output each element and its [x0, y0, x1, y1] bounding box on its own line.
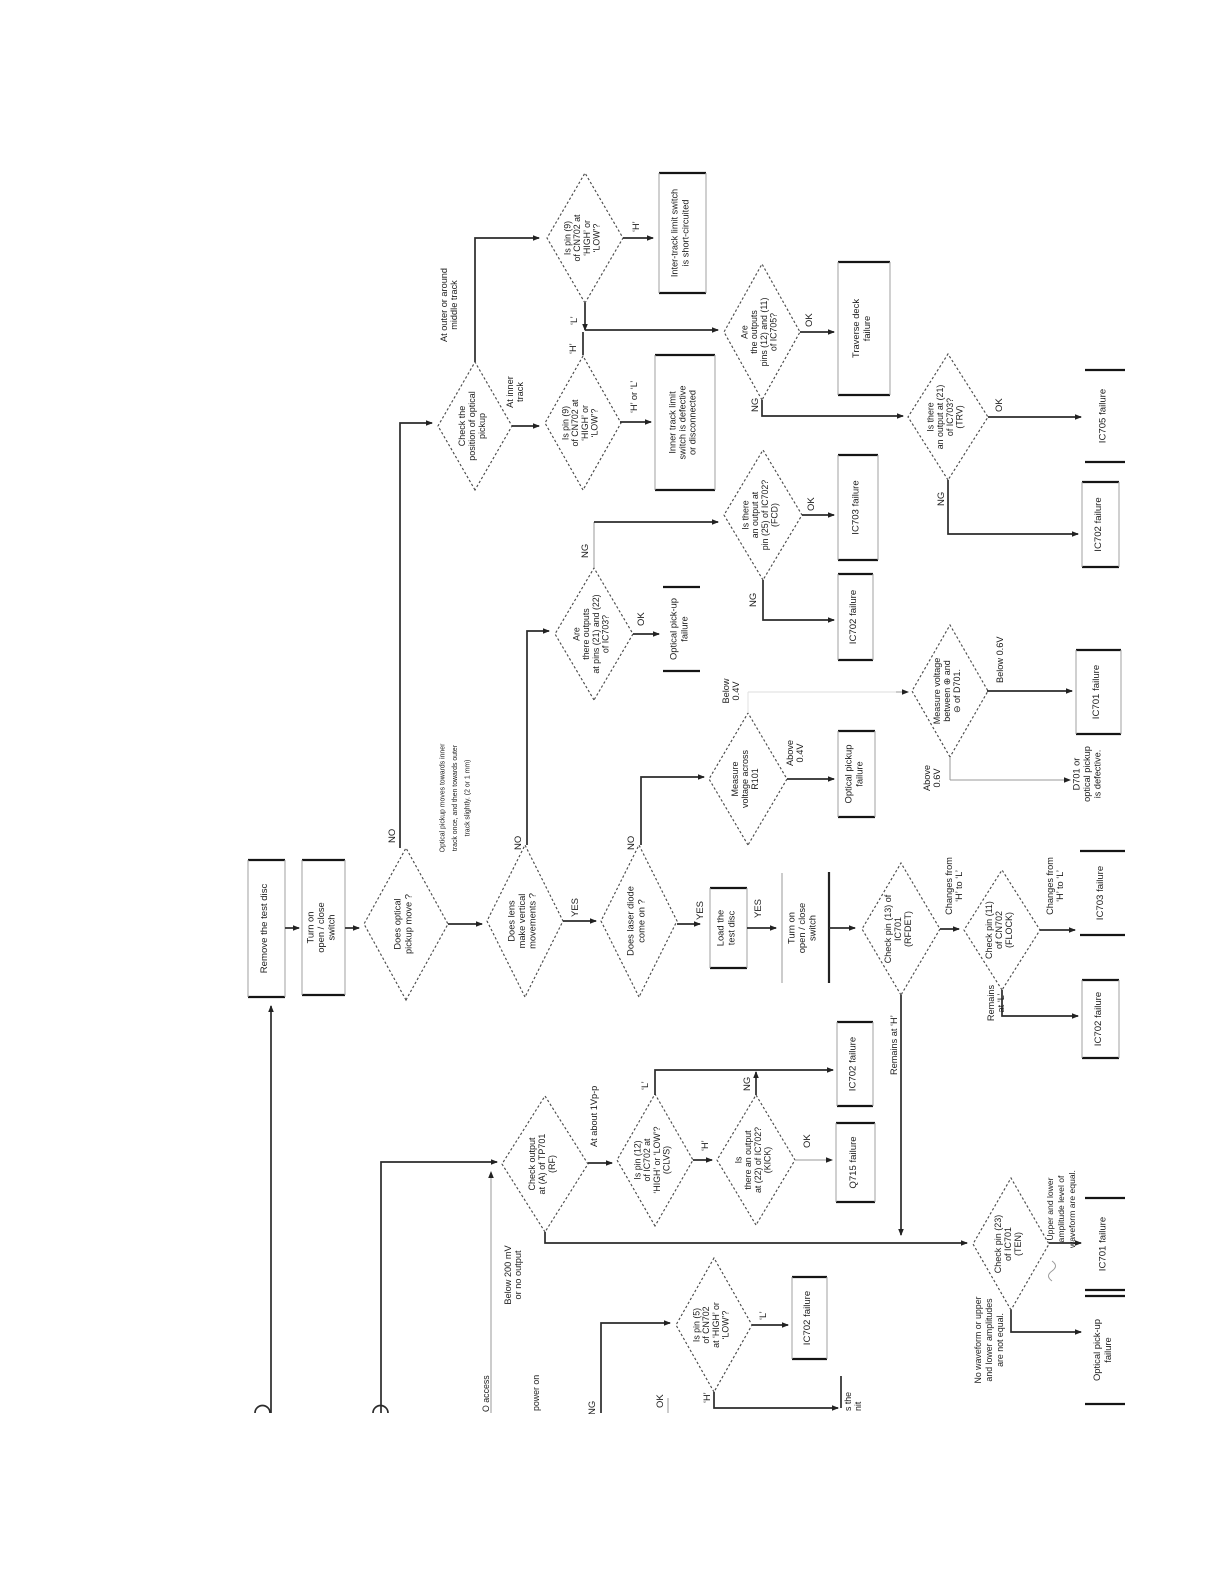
svg-text:Turn onopen / closeswitch: Turn onopen / closeswitch: [786, 903, 818, 954]
svg-text:OK: OK: [804, 313, 815, 327]
svg-text:Inner track limitswitch is def: Inner track limitswitch is defectiveor d…: [667, 385, 697, 459]
svg-text:‘L’: ‘L’: [758, 1311, 768, 1320]
svg-text:nit: nit: [853, 1401, 863, 1411]
svg-text:IC705 failure: IC705 failure: [1098, 389, 1109, 443]
svg-text:NO: NO: [387, 829, 398, 843]
svg-text:‘H’ or ‘L’: ‘H’ or ‘L’: [629, 381, 639, 413]
svg-text:IC703 failure: IC703 failure: [851, 480, 862, 534]
svg-text:At innertrack: At innertrack: [505, 376, 525, 408]
svg-text:Does lensmake verticalmovement: Does lensmake verticalmovements ?: [506, 893, 537, 949]
svg-text:IC702 failure: IC702 failure: [1093, 992, 1104, 1046]
svg-text:IC703 failure: IC703 failure: [1095, 866, 1106, 920]
svg-text:IC702 failure: IC702 failure: [1093, 497, 1104, 551]
svg-text:power on: power on: [531, 1375, 541, 1411]
svg-text:‘L’: ‘L’: [569, 316, 579, 325]
svg-text:Above0.6V: Above0.6V: [922, 765, 942, 791]
svg-text:IC702 failure: IC702 failure: [802, 1291, 813, 1345]
svg-text:IC701 failure: IC701 failure: [1098, 1217, 1109, 1271]
svg-text:IC702 failure: IC702 failure: [848, 1037, 859, 1091]
svg-text:Changes from‘H’ to ‘L’: Changes from‘H’ to ‘L’: [1045, 857, 1065, 915]
svg-text:Below0.4V: Below0.4V: [721, 678, 741, 703]
svg-text:Does opticalpickup move ?: Does opticalpickup move ?: [393, 894, 414, 954]
svg-text:OK: OK: [994, 398, 1005, 412]
svg-text:Load thetest disc: Load thetest disc: [715, 910, 737, 947]
svg-text:Below 0.6V: Below 0.6V: [995, 636, 1005, 683]
svg-text:Above0.4V: Above0.4V: [785, 740, 805, 766]
svg-text:‘H’: ‘H’: [631, 221, 641, 232]
svg-text:D701 oroptical pickupis defect: D701 oroptical pickupis defective.: [1072, 746, 1103, 802]
svg-text:Changes from‘H’ to ‘L’: Changes from‘H’ to ‘L’: [944, 857, 964, 915]
svg-text:OK: OK: [806, 497, 817, 511]
svg-text:‘H’: ‘H’: [568, 343, 578, 354]
svg-text:At outer or aroundmiddle track: At outer or aroundmiddle track: [439, 268, 459, 342]
svg-text:Q715 failure: Q715 failure: [848, 1136, 859, 1188]
svg-text:NG: NG: [587, 1401, 598, 1415]
svg-text:Upper and loweramplitude level: Upper and loweramplitude level ofwavefor…: [1045, 1170, 1077, 1249]
svg-text:NO: NO: [626, 836, 637, 850]
svg-text:IC702 failure: IC702 failure: [848, 590, 859, 644]
svg-text:NG: NG: [936, 492, 947, 506]
svg-text:OK: OK: [802, 1134, 813, 1148]
svg-text:s the: s the: [843, 1392, 853, 1411]
svg-text:O access: O access: [481, 1375, 491, 1412]
svg-text:NO: NO: [513, 836, 524, 850]
svg-text:‘H’: ‘H’: [702, 1392, 712, 1403]
svg-text:YES: YES: [695, 901, 706, 920]
svg-text:OK: OK: [655, 1394, 666, 1408]
svg-text:At about 1Vp-p: At about 1Vp-p: [589, 1086, 599, 1147]
svg-text:No waveform or upperand lower: No waveform or upperand lower amplitudes…: [973, 1296, 1005, 1383]
svg-text:Remove the test disc: Remove the test disc: [259, 884, 270, 974]
svg-text:Remains at ‘H’: Remains at ‘H’: [889, 1015, 899, 1075]
svg-text:‘H’: ‘H’: [700, 1140, 710, 1151]
svg-text:Optical pickup moves towards i: Optical pickup moves towards innertrack …: [440, 743, 472, 852]
svg-text:YES: YES: [753, 899, 764, 918]
svg-text:IC701 failure: IC701 failure: [1091, 665, 1102, 719]
svg-text:Inter-track limit switchis sho: Inter-track limit switchis short-circuit…: [670, 189, 691, 277]
svg-text:NG: NG: [580, 544, 591, 558]
svg-text:OK: OK: [636, 612, 647, 626]
svg-text:NG: NG: [748, 593, 759, 607]
svg-text:YES: YES: [570, 898, 581, 917]
svg-text:Below 200 mVor no output: Below 200 mVor no output: [503, 1245, 523, 1305]
svg-text:‘L’: ‘L’: [640, 1081, 650, 1090]
svg-text:NG: NG: [750, 398, 761, 412]
svg-text:NG: NG: [742, 1077, 753, 1091]
